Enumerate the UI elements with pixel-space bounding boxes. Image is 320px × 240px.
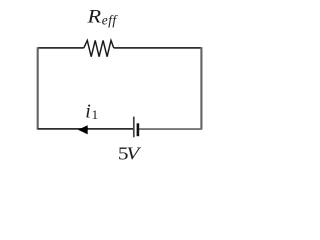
svg-text:eff: eff bbox=[102, 13, 119, 28]
svg-text:i: i bbox=[85, 101, 91, 123]
battery V1 negative plate (short thick) bbox=[137, 123, 140, 136]
wire left vertical bbox=[37, 47, 39, 129]
current arrow i1 (points left) bbox=[78, 125, 88, 134]
svg-text:V: V bbox=[126, 144, 141, 164]
wire right vertical bbox=[200, 47, 202, 129]
svg-text:1: 1 bbox=[92, 107, 99, 122]
wire bottom-right segment bbox=[138, 128, 201, 130]
wire top-right segment bbox=[114, 47, 202, 49]
resistor R_eff bbox=[84, 40, 114, 56]
battery V1 positive plate (long) bbox=[133, 117, 135, 138]
wire top-left segment bbox=[38, 47, 84, 49]
wire bottom-left segment bbox=[38, 128, 134, 130]
svg-text:R: R bbox=[86, 7, 101, 28]
